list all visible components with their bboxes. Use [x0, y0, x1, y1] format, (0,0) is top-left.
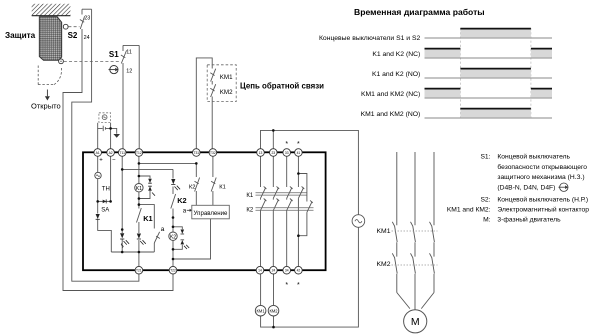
svg-text:34: 34 [285, 269, 289, 273]
svg-text:T21: T21 [136, 269, 142, 273]
svg-text:a: a [183, 207, 187, 214]
svg-text:T12: T12 [136, 151, 142, 155]
svg-text:T22: T22 [170, 269, 176, 273]
svg-text:41: 41 [297, 151, 301, 155]
svg-text:KM2: KM2 [220, 89, 233, 96]
svg-text:14: 14 [258, 269, 262, 273]
svg-text:S1: S1 [109, 50, 119, 59]
svg-text:23: 23 [271, 151, 275, 155]
svg-text:Концевой выключатель (Н.Р.): Концевой выключатель (Н.Р.) [497, 195, 588, 203]
svg-text:K1: K1 [136, 186, 142, 192]
svg-text:К1: К1 [219, 184, 226, 190]
svg-text:*: * [297, 282, 300, 289]
svg-text:Открыто: Открыто [31, 102, 61, 111]
svg-text:K1: K1 [143, 214, 152, 223]
svg-text:S1:: S1: [480, 154, 490, 161]
svg-text:защитного механизма (Н.З.): защитного механизма (Н.З.) [497, 174, 584, 181]
svg-text:11: 11 [126, 50, 132, 56]
svg-text:13: 13 [259, 151, 263, 155]
svg-text:*: * [297, 141, 300, 148]
svg-text:KM2: KM2 [377, 261, 391, 268]
svg-text:T11: T11 [119, 151, 125, 155]
svg-text:A2: A2 [109, 151, 113, 155]
svg-text:(D4B-N, D4N, D4F): (D4B-N, D4N, D4F) [497, 184, 555, 191]
svg-text:12: 12 [126, 69, 132, 75]
svg-text:KM1 and KM2 (NC): KM1 and KM2 (NC) [361, 91, 420, 98]
svg-text:T32: T32 [210, 151, 216, 155]
svg-text:SA: SA [101, 208, 109, 214]
svg-text:M:: M: [483, 217, 491, 224]
svg-text:Временная диаграмма работы: Временная диаграмма работы [354, 7, 485, 17]
svg-text:*: * [285, 282, 288, 289]
svg-text:К1: К1 [246, 193, 253, 199]
svg-text:KM1 and КМ2:: KM1 and КМ2: [447, 207, 491, 214]
svg-text:*: * [285, 141, 288, 148]
svg-text:−: − [112, 158, 116, 164]
svg-text:Концевой выключатель: Концевой выключатель [497, 153, 570, 161]
svg-text:K1 and K2 (NO): K1 and K2 (NO) [372, 71, 420, 78]
svg-text:42: 42 [297, 269, 301, 273]
svg-text:K2: K2 [170, 234, 176, 240]
svg-text:M: M [411, 316, 420, 328]
svg-text:KM1 and KM2 (NO): KM1 and KM2 (NO) [361, 111, 421, 118]
svg-text:24: 24 [272, 269, 276, 273]
svg-text:TH: TH [102, 186, 110, 192]
svg-text:КМ2: КМ2 [269, 308, 278, 313]
svg-text:S2:: S2: [480, 196, 490, 203]
svg-text:24: 24 [84, 35, 90, 41]
svg-text:KM1: KM1 [220, 74, 233, 81]
svg-text:T31: T31 [193, 151, 199, 155]
svg-text:безопасности открывающего: безопасности открывающего [497, 163, 587, 171]
svg-text:a: a [161, 226, 165, 233]
svg-text:A1: A1 [96, 151, 100, 155]
svg-text:K2: K2 [177, 196, 186, 205]
svg-text:33: 33 [285, 151, 289, 155]
svg-text:Концевые выключатели S1 и S2: Концевые выключатели S1 и S2 [319, 35, 421, 42]
svg-text:К2: К2 [189, 184, 196, 190]
svg-text:Электромагнитный контактор: Электромагнитный контактор [497, 206, 589, 214]
svg-text:S2: S2 [68, 31, 78, 40]
svg-text:3-фазный двигатель: 3-фазный двигатель [497, 216, 561, 224]
svg-text:K1 and K2 (NC): K1 and K2 (NC) [372, 51, 420, 58]
svg-text:23: 23 [84, 16, 90, 22]
svg-text:+: + [99, 158, 103, 164]
svg-text:Цепь обратной связи: Цепь обратной связи [240, 82, 324, 91]
svg-text:Защита: Защита [5, 31, 36, 40]
svg-text:Управление: Управление [194, 210, 228, 217]
svg-text:KM1: KM1 [377, 228, 391, 235]
svg-text:КМ1: КМ1 [257, 308, 266, 313]
svg-text:К2: К2 [246, 208, 253, 214]
